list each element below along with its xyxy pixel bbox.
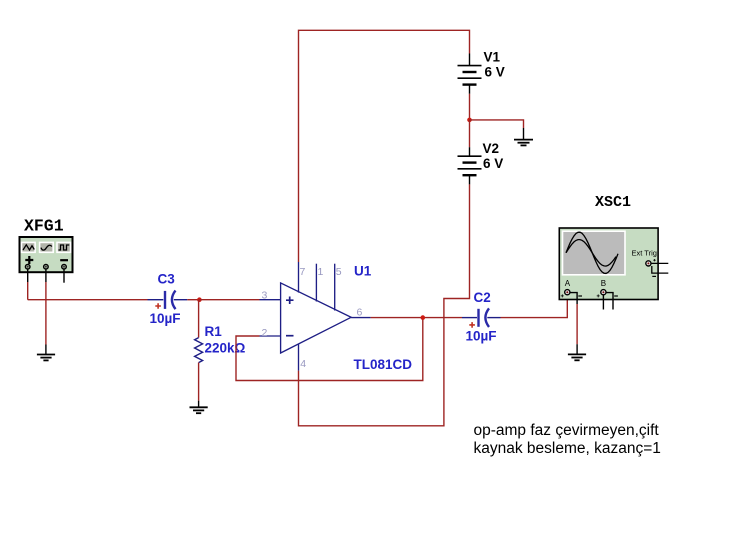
svg-text:3: 3 [262,290,268,302]
ground (supply midpoint) [514,140,533,146]
wire XFG1 + output down [27,269,29,300]
svg-text:A: A [565,279,571,288]
svg-text:10µF: 10µF [466,328,497,343]
wire output pin6 to C2 [371,317,462,319]
ground (R1) [190,407,208,413]
svg-text:op-amp faz çevirmeyen,çift: op-amp faz çevirmeyen,çift [474,422,660,439]
wire scope B stubs [603,293,613,310]
svg-text:4: 4 [300,358,306,370]
svg-text:Ext Trig: Ext Trig [632,248,657,257]
wire mid junction to V2 [469,120,471,147]
svg-text:C3: C3 [158,272,176,287]
wire V1 to mid junction [469,94,471,120]
oscilloscope XSC1 [559,228,668,300]
svg-text:7: 7 [300,266,306,278]
capacitor C3 [148,291,188,310]
function generator XFG1 [20,237,73,272]
wire top supply loop from pin7 to V1 [299,30,470,262]
ground (scope) [568,354,586,360]
wire C3 to node A [187,299,199,301]
svg-text:1: 1 [318,266,324,278]
svg-text:kaynak besleme, kazanç=1: kaynak besleme, kazanç=1 [474,440,661,457]
ground (XFG1) [37,355,55,361]
svg-text:V1: V1 [484,50,501,65]
wire XFG1 - stub [63,269,65,283]
svg-text:XSC1: XSC1 [595,194,631,211]
wire XFG1 common to ground [45,269,47,354]
svg-text:U1: U1 [354,264,372,279]
wire scope A- to ground [570,293,578,354]
node output junction [421,315,426,320]
svg-text:6 V: 6 V [485,65,505,80]
svg-text:220kΩ: 220kΩ [205,341,246,356]
wire mid junction to ground [470,120,524,139]
wire input net horizontal to C3 [28,299,148,301]
svg-text:10µF: 10µF [150,311,181,326]
op-amp U1 [260,262,371,371]
svg-text:6: 6 [357,307,363,319]
battery V2 [458,147,482,184]
svg-text:C2: C2 [474,290,491,305]
svg-text:V2: V2 [483,141,500,156]
svg-text:R1: R1 [205,324,223,339]
battery V1 [458,54,482,94]
svg-text:2: 2 [262,327,268,339]
wire C2 to scope A [501,297,568,318]
svg-text:6 V: 6 V [483,156,503,171]
svg-text:B: B [601,279,606,288]
wire node A to pin 3 [199,299,259,301]
resistor R1 [195,300,203,407]
svg-text:TL081CD: TL081CD [354,357,413,372]
node A input junction [197,297,202,302]
wire feedback pin2 loop [236,318,423,381]
svg-text:XFG1: XFG1 [24,217,64,236]
wire V2 to pin4 (negative supply loop) [299,184,470,425]
node mid-supply junction [467,118,472,123]
capacitor C2 [462,308,501,327]
svg-text:5: 5 [336,266,342,278]
